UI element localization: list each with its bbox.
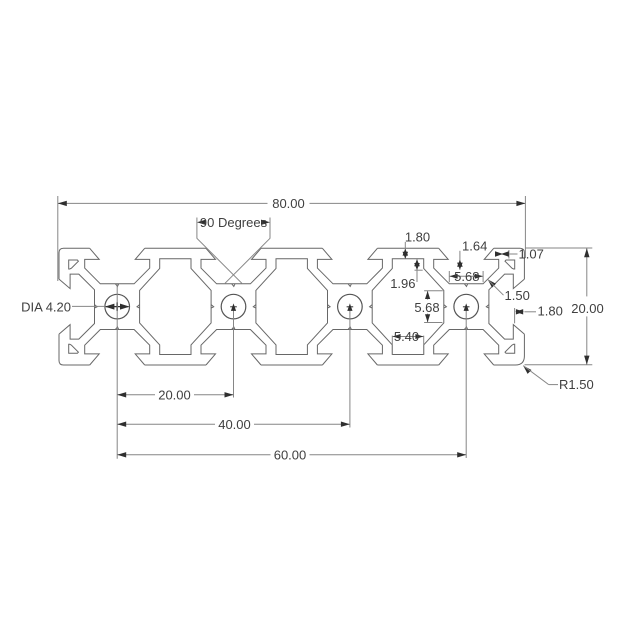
svg-text:1.80: 1.80 bbox=[405, 230, 430, 245]
bottom T-slot S4B at module 4 bbox=[434, 330, 499, 366]
bottom T-slot S3B at module 3 bbox=[317, 330, 382, 366]
svg-text:1.64: 1.64 bbox=[462, 238, 487, 253]
centre bore H1 bbox=[105, 294, 130, 319]
top T-slot S4T at module 4 bbox=[434, 248, 499, 283]
svg-text:R1.50: R1.50 bbox=[559, 377, 594, 392]
svg-text:1.50: 1.50 bbox=[505, 288, 530, 303]
dimension 1.64 slot lip bbox=[457, 238, 487, 269]
svg-text:1.96: 1.96 bbox=[390, 276, 415, 291]
dimension 60.00 hole pitch bbox=[117, 447, 466, 462]
dimension 5.40 cavity neck width bbox=[392, 329, 423, 355]
corner cutout bottom-right bbox=[505, 344, 515, 353]
dimension 1.50 chamfer bbox=[488, 279, 530, 303]
dimension 90 Degrees V-slot angle bbox=[197, 215, 270, 283]
corner cutout bottom-left bbox=[69, 344, 79, 353]
centre bore H4 bbox=[454, 294, 479, 319]
dimension 1.80 end lip bbox=[515, 303, 563, 323]
hole H4 centre mark bbox=[463, 303, 470, 458]
dimension 1.80 top wall thickness bbox=[403, 230, 431, 259]
hole H3 centre mark bbox=[347, 303, 354, 427]
octagonal cavity at 40mm bbox=[256, 259, 328, 355]
corner cutout top-right bbox=[505, 260, 515, 269]
svg-text:DIA 4.20: DIA 4.20 bbox=[21, 300, 71, 315]
svg-text:40.00: 40.00 bbox=[218, 417, 251, 432]
svg-text:5.68: 5.68 bbox=[414, 300, 439, 315]
left end T-slot bbox=[59, 274, 95, 339]
top T-slot S1T at module 1 bbox=[85, 248, 150, 283]
bottom T-slot S2B at module 2 bbox=[201, 330, 266, 366]
dimension 1.96 slot ledge depth bbox=[390, 259, 423, 291]
dimension 5.68 cavity wall height bbox=[414, 291, 442, 323]
svg-text:1.80: 1.80 bbox=[538, 303, 563, 318]
dimension 20.00 hole pitch bbox=[117, 388, 233, 403]
top T-slot S2T at module 2 bbox=[201, 248, 266, 283]
corner cutout top-left bbox=[69, 260, 79, 269]
dimension 1.07 corner lip bbox=[495, 246, 544, 261]
svg-text:20.00: 20.00 bbox=[158, 388, 191, 403]
bottom T-slot S1B at module 1 bbox=[85, 330, 150, 366]
dimension 40.00 hole pitch bbox=[117, 417, 350, 432]
svg-text:20.00: 20.00 bbox=[571, 301, 604, 316]
top T-slot S3T at module 3 bbox=[317, 248, 382, 283]
svg-text:5.40: 5.40 bbox=[394, 329, 419, 344]
svg-text:80.00: 80.00 bbox=[272, 196, 305, 211]
svg-text:1.07: 1.07 bbox=[519, 246, 544, 261]
dimension 5.68 slot floor width bbox=[449, 269, 483, 284]
svg-text:5.68: 5.68 bbox=[454, 269, 479, 284]
dimension R1.50 corner radius bbox=[523, 366, 594, 392]
octagonal cavity at 60mm bbox=[372, 259, 444, 355]
svg-text:90 Degrees: 90 Degrees bbox=[200, 215, 268, 230]
centre bore H3 bbox=[338, 294, 363, 319]
octagonal cavity at 20mm bbox=[140, 259, 212, 355]
centre bore H2 bbox=[221, 294, 246, 319]
dimension 20.00 overall height bbox=[525, 248, 604, 365]
svg-text:60.00: 60.00 bbox=[274, 447, 307, 462]
wall midpoint tick marks bbox=[95, 284, 489, 330]
right end T-slot bbox=[489, 274, 525, 339]
dimension 80.00 overall width bbox=[58, 196, 526, 281]
dimension DIA 4.20 bore diameter bbox=[21, 300, 129, 315]
profile outer boundary bbox=[59, 248, 524, 365]
hole H2 centre mark bbox=[230, 303, 237, 397]
hole H1 centreline bbox=[116, 284, 118, 459]
